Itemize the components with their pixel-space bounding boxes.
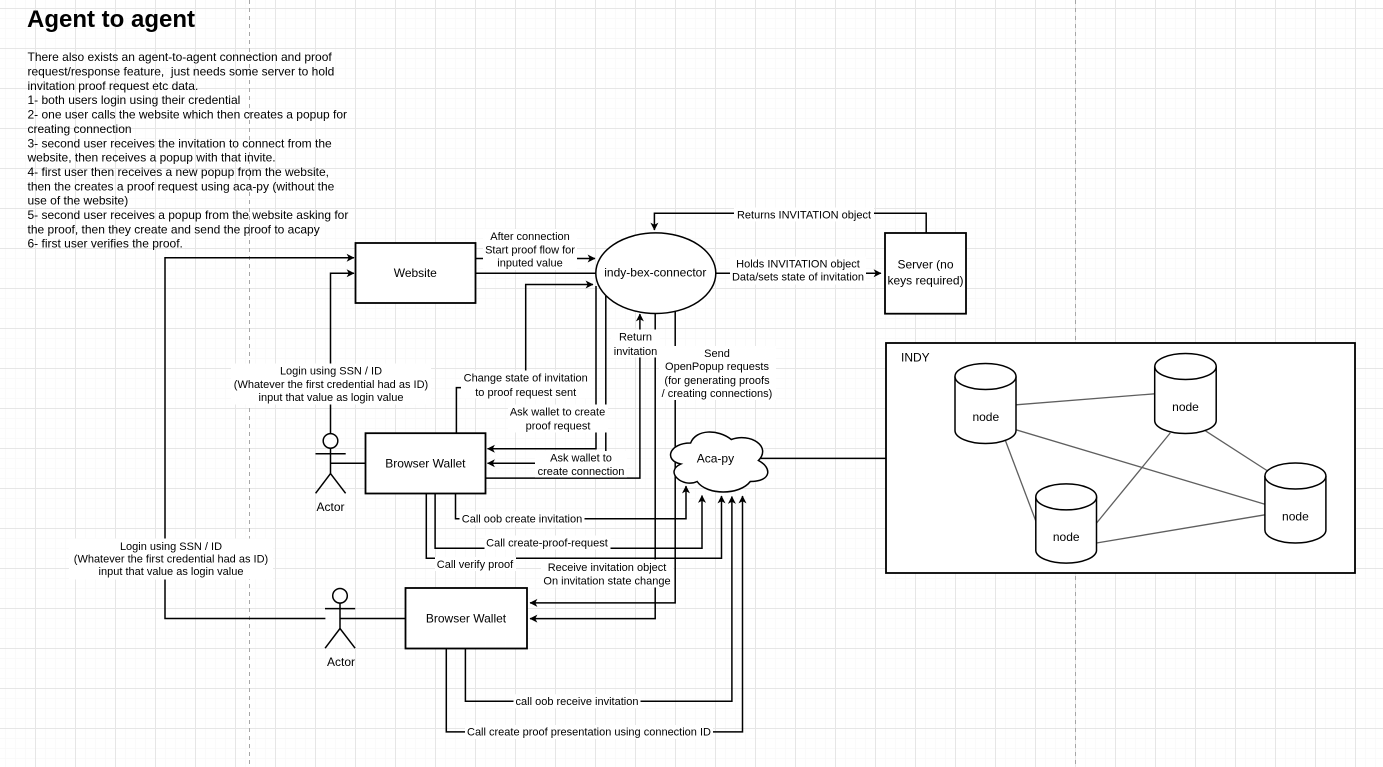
svg-text:INDY: INDY bbox=[901, 351, 930, 365]
svg-text:6- first user verifies the pro: 6- first user verifies the proof. bbox=[28, 237, 183, 251]
svg-text:to proof request sent: to proof request sent bbox=[475, 387, 576, 399]
svg-text:website, then receives a popup: website, then receives a popup with that… bbox=[27, 151, 276, 165]
edge website to ellipse (plain) bbox=[476, 272, 596, 274]
svg-text:Browser Wallet: Browser Wallet bbox=[426, 612, 507, 626]
svg-text:Agent to agent: Agent to agent bbox=[27, 6, 195, 33]
svg-text:Call verify proof: Call verify proof bbox=[437, 559, 514, 571]
edge actor2 to website bbox=[165, 258, 354, 619]
cylinder node C3 bbox=[1036, 484, 1097, 563]
svg-text:Ask wallet to create: Ask wallet to create bbox=[510, 406, 605, 418]
page boundary dashed line right bbox=[1075, 0, 1077, 767]
edge BW1 to ellipse (Change state) bbox=[456, 285, 593, 434]
cylinder node C4 bbox=[1265, 463, 1326, 543]
svg-text:Call create proof presentation: Call create proof presentation using con… bbox=[467, 727, 711, 739]
svg-text:node: node bbox=[1172, 400, 1199, 414]
svg-text:create connection: create connection bbox=[538, 466, 625, 478]
svg-text:Start proof flow for: Start proof flow for bbox=[485, 244, 575, 256]
svg-text:Login using SSN / ID: Login using SSN / ID bbox=[280, 366, 382, 378]
edge ellipse to BW2 (x=675) Send OpenPopup bbox=[530, 311, 675, 603]
ellipse indy-bex-connector bbox=[596, 233, 716, 314]
svg-text:Send: Send bbox=[704, 348, 730, 360]
edge ellipse to BW1 (Ask wallet to create connection) bbox=[488, 296, 606, 463]
svg-text:indy-bex-connector: indy-bex-connector bbox=[604, 266, 706, 280]
edge server to ellipse (Returns INVITATION object) bbox=[654, 213, 926, 233]
svg-text:Website: Website bbox=[394, 266, 437, 280]
edge actor1 to website bbox=[331, 273, 355, 433]
svg-text:(Whatever the first credential: (Whatever the first credential had as ID… bbox=[234, 379, 428, 391]
svg-text:creating connection: creating connection bbox=[28, 122, 132, 136]
svg-text:After connection: After connection bbox=[490, 231, 570, 243]
cylinder node C1 bbox=[955, 364, 1016, 444]
label send openpopup bbox=[659, 346, 776, 400]
page boundary dashed line left bbox=[249, 0, 251, 767]
svg-text:call oob receive invitation: call oob receive invitation bbox=[516, 696, 639, 708]
svg-text:Server (no: Server (no bbox=[897, 258, 953, 272]
svg-text:On invitation state change: On invitation state change bbox=[543, 576, 670, 588]
svg-text:use of the website): use of the website) bbox=[28, 194, 129, 208]
svg-text:invitation proof request etc d: invitation proof request etc data. bbox=[28, 79, 199, 93]
svg-text:Call oob create invitation: Call oob create invitation bbox=[462, 514, 582, 526]
label return invitation bbox=[611, 330, 660, 359]
edge BW1 to cloud (Call oob create invitation) bbox=[456, 486, 687, 519]
svg-text:input that value as login valu: input that value as login value bbox=[99, 566, 244, 578]
svg-text:Actor: Actor bbox=[327, 655, 355, 669]
svg-text:the proof, then they create an: the proof, then they create and send the… bbox=[28, 222, 320, 236]
svg-text:There also exists an agent-to-: There also exists an agent-to-agent conn… bbox=[28, 50, 333, 64]
svg-text:Returns INVITATION object: Returns INVITATION object bbox=[737, 210, 871, 222]
link actor2 - BW2 bbox=[340, 618, 406, 620]
svg-text:(Whatever the first credential: (Whatever the first credential had as ID… bbox=[74, 553, 268, 565]
svg-text:2- one user calls the website: 2- one user calls the website which then… bbox=[28, 108, 348, 122]
indy network line C2-C4 bbox=[1205, 431, 1270, 473]
edge BW1 to cloud (Call verify proof) bbox=[426, 494, 721, 559]
cloud Aca-py bbox=[671, 432, 768, 492]
link actor1 - BW1 bbox=[331, 462, 366, 464]
label change state bbox=[461, 371, 591, 400]
indy network line C1-C4 bbox=[1016, 430, 1265, 505]
svg-text:(for generating proofs: (for generating proofs bbox=[664, 375, 770, 387]
actor 1 bbox=[316, 434, 346, 494]
indy network line C1-C3 bbox=[1005, 440, 1036, 522]
edge cloud to INDY bbox=[760, 457, 886, 459]
label login SSN upper bbox=[231, 364, 431, 405]
label returns invitation object bbox=[734, 208, 874, 222]
svg-text:Call create-proof-request: Call create-proof-request bbox=[486, 537, 608, 549]
label receive invitation object bbox=[541, 560, 673, 588]
INDY box bbox=[886, 343, 1355, 573]
svg-text:1- both users login using thei: 1- both users login using their credenti… bbox=[28, 93, 241, 107]
edge BW2 to cloud (Call create proof presentation) bbox=[446, 496, 742, 732]
svg-text:invitation: invitation bbox=[614, 346, 657, 358]
label login SSN left bbox=[69, 539, 273, 580]
edge BW1 to cloud (Call create-proof-request) bbox=[435, 494, 702, 549]
cylinder node C2 bbox=[1155, 354, 1217, 434]
svg-text:then the creates a proof reque: then the creates a proof request using a… bbox=[28, 179, 335, 193]
indy network line C1-C2 bbox=[1016, 394, 1155, 405]
svg-text:node: node bbox=[1282, 509, 1309, 523]
svg-text:OpenPopup requests: OpenPopup requests bbox=[665, 361, 769, 373]
svg-text:Return: Return bbox=[619, 332, 652, 344]
box Browser Wallet 1 bbox=[366, 433, 486, 493]
label call oob receive invitation bbox=[514, 694, 641, 708]
edge BW1 to ellipse (Return invitation) bbox=[486, 314, 640, 478]
svg-text:5- second user receives a popu: 5- second user receives a popup from the… bbox=[28, 208, 349, 222]
svg-text:Receive invitation object: Receive invitation object bbox=[548, 562, 667, 574]
label ask wallet connection bbox=[535, 451, 627, 478]
svg-text:Data/sets state of invitation: Data/sets state of invitation bbox=[732, 272, 864, 284]
label holds invitation object bbox=[730, 257, 866, 285]
svg-text:Login using SSN / ID: Login using SSN / ID bbox=[120, 541, 222, 553]
svg-text:node: node bbox=[1053, 530, 1080, 544]
edge website to ellipse (After connection) bbox=[476, 258, 596, 260]
svg-text:node: node bbox=[972, 410, 999, 424]
label after connection bbox=[483, 229, 577, 270]
indy network line C2-C3 bbox=[1097, 433, 1171, 523]
edge ellipse to BW1 (Ask wallet to create proof request) bbox=[488, 286, 597, 449]
box Server bbox=[885, 233, 966, 314]
svg-text:/ creating connections): / creating connections) bbox=[662, 388, 773, 400]
description paragraph bbox=[27, 50, 349, 251]
indy network line C3-C4 bbox=[1097, 515, 1265, 543]
edge ellipse to server (Holds INVITATION object) bbox=[716, 272, 881, 274]
label call create-proof-request bbox=[485, 536, 611, 550]
svg-text:4- first user then receives a: 4- first user then receives a new popup … bbox=[28, 165, 329, 179]
svg-text:Holds INVITATION object: Holds INVITATION object bbox=[736, 258, 860, 270]
svg-text:Ask wallet to: Ask wallet to bbox=[550, 452, 612, 464]
svg-text:Browser Wallet: Browser Wallet bbox=[385, 457, 466, 471]
edge BW2 to cloud (call oob receive invitation) bbox=[465, 497, 732, 702]
svg-text:request/response feature, jus: request/response feature, just needs som… bbox=[28, 65, 335, 79]
label call verify proof bbox=[435, 557, 516, 571]
actor 2 bbox=[325, 589, 355, 649]
svg-text:Aca-py: Aca-py bbox=[697, 452, 734, 466]
label call oob create invitation bbox=[460, 512, 585, 526]
box Website bbox=[356, 243, 476, 303]
label ask wallet proof request bbox=[508, 405, 608, 433]
edge ellipse to BW2 (x=655) Receive invitation bbox=[530, 313, 655, 619]
label call create proof presentation bbox=[465, 725, 713, 739]
svg-text:proof request: proof request bbox=[526, 421, 591, 433]
svg-text:3- second user receives the in: 3- second user receives the invitation t… bbox=[28, 136, 332, 150]
svg-text:Actor: Actor bbox=[316, 500, 344, 514]
svg-text:inputed value: inputed value bbox=[497, 257, 562, 269]
svg-text:input that value as login valu: input that value as login value bbox=[259, 392, 404, 404]
svg-text:Change state of invitation: Change state of invitation bbox=[464, 372, 588, 384]
box Browser Wallet 2 bbox=[406, 588, 528, 649]
svg-text:keys required): keys required) bbox=[887, 274, 963, 288]
